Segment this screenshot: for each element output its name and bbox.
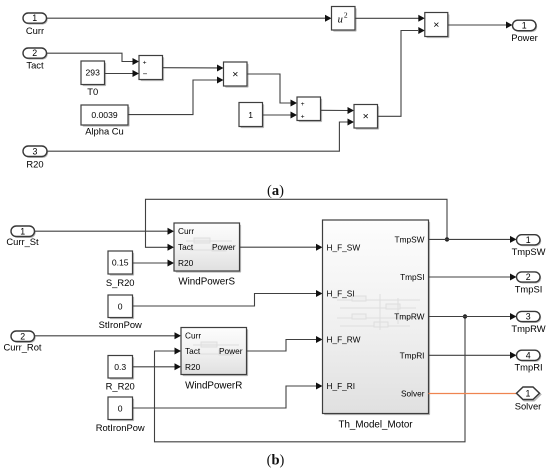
wire one to sum2 [263,112,298,119]
svg-text:(b): (b) [267,453,285,469]
svg-text:+: + [301,101,305,108]
inport 1 Curr_St [6,226,39,247]
constant T0 293 [81,61,106,97]
outport 3 TmpRW [511,311,545,333]
product block X3 [425,13,450,39]
wire TmpSW to outport [429,236,517,243]
wire WindPowerR Power to H_F_RW [247,336,323,351]
wire product2 to product3 [378,27,425,116]
wire Curr_St to WindPowerS Curr [35,228,175,235]
outport 4 TmpRI [514,350,542,372]
svg-text:Power: Power [219,346,243,356]
svg-text:TmpSW: TmpSW [512,246,546,257]
svg-text:Th_Model_Motor: Th_Model_Motor [338,420,413,431]
svg-text:4: 4 [526,350,531,360]
wire feedback TmpSW to WindPowerS Tact [146,199,450,251]
svg-text:u: u [338,14,343,25]
svg-text:StIronPow: StIronPow [99,319,142,330]
wire RotIronPow to H_F_RI [133,383,323,409]
svg-text:×: × [433,19,439,31]
sum block sum1 plus minus [139,56,164,82]
svg-text:(a): (a) [267,183,284,199]
wire u2 to product3 [355,15,425,22]
figure label (b) [267,453,285,469]
inport 1 Curr [23,13,48,36]
svg-text:H_F_SI: H_F_SI [327,289,355,299]
outport 1 TmpSW [512,235,546,257]
wire feedback TmpRW to WindPowerR Tact [155,314,468,442]
inport 2 Tact [23,48,48,71]
svg-text:TmpRW: TmpRW [394,312,424,322]
inport 3 R20 [23,146,48,170]
wire sum2 to product2 [321,107,355,114]
subsystem WindPowerS [174,223,241,288]
product block X2 [354,105,379,130]
svg-text:1: 1 [32,13,37,23]
svg-text:H_F_RI: H_F_RI [327,381,356,391]
wire TmpRW to outport [429,313,517,320]
wire product1 to sum2 [247,74,297,107]
svg-text:T0: T0 [87,86,98,97]
svg-text:3: 3 [526,312,531,322]
outport Solver state port [515,387,542,412]
svg-text:0.0039: 0.0039 [91,110,118,120]
wire WindPowerS Power to H_F_SW [240,244,323,251]
wire S_R20 to WindPowerS R20 [133,260,175,267]
svg-text:2: 2 [32,48,37,58]
subsystem Th_Model_Motor [323,220,431,431]
wire T0 to sum1 [105,70,140,77]
svg-text:Alpha Cu: Alpha Cu [85,125,124,136]
svg-text:Tact: Tact [185,346,201,356]
svg-text:Curr: Curr [178,226,194,236]
wire R20 to product2 [47,119,354,152]
svg-text:1: 1 [526,388,531,398]
svg-text:Tact: Tact [178,242,194,252]
constant S_R20 0.15 [106,251,135,288]
wire Curr to u^2 [47,15,332,22]
svg-text:+: + [143,59,147,66]
svg-text:TmpRI: TmpRI [400,350,425,360]
constant RotIronPow 0 [96,397,145,433]
svg-text:Solver: Solver [515,401,542,412]
svg-text:0.15: 0.15 [112,258,129,268]
outport 2 TmpSI [515,272,543,295]
svg-text:Tact: Tact [26,60,44,71]
svg-text:S_R20: S_R20 [106,277,135,288]
wire StIronPow to H_F_SI [133,290,323,306]
sum block sum2 plus plus [297,97,322,122]
subsystem WindPowerR [181,328,248,392]
svg-text:0: 0 [118,403,123,413]
svg-text:R20: R20 [26,159,43,170]
svg-text:+: + [301,113,305,120]
svg-text:Curr_Rot: Curr_Rot [3,341,41,352]
svg-text:×: × [363,111,369,123]
svg-text:H_F_SW: H_F_SW [327,242,361,252]
svg-text:−: − [143,70,148,79]
svg-text:Power: Power [511,32,538,43]
svg-text:2: 2 [526,272,531,282]
svg-text:TmpRW: TmpRW [511,323,545,334]
svg-text:RotIronPow: RotIronPow [96,422,145,433]
svg-text:H_F_RW: H_F_RW [327,335,361,345]
svg-text:2: 2 [344,11,348,20]
constant Alpha Cu 0.0039 [81,105,130,136]
svg-text:R20: R20 [178,258,194,268]
constant R_R20 0.3 [106,356,135,392]
wire TmpSI to outport [429,274,517,281]
svg-text:0.3: 0.3 [114,362,126,372]
constant StIronPow 0 [99,295,142,330]
inport 2 Curr_Rot [3,331,41,352]
wire R_R20 to WindPowerR R20 [133,363,182,370]
svg-text:1: 1 [248,110,253,120]
svg-text:R_R20: R_R20 [106,381,135,392]
math block u squared [332,7,357,32]
svg-text:2: 2 [20,331,25,341]
svg-text:TmpSI: TmpSI [515,283,543,294]
wire product3 to Power [448,22,513,29]
svg-text:Curr: Curr [185,331,201,341]
svg-text:Power: Power [212,242,236,252]
wire Curr_Rot to WindPowerR Curr [35,332,182,339]
svg-text:WindPowerR: WindPowerR [185,381,242,392]
svg-text:1: 1 [526,235,531,245]
svg-text:Solver: Solver [401,389,425,399]
wire TmpRI to outport [429,352,517,359]
wire sum1 to product1 [163,65,224,72]
figure label (a) [267,183,284,199]
constant one 1 [239,103,264,129]
svg-text:WindPowerS: WindPowerS [178,277,235,288]
svg-text:0: 0 [118,301,123,311]
svg-text:1: 1 [522,21,527,31]
svg-text:×: × [232,68,238,80]
svg-text:293: 293 [86,68,101,78]
product block X1 [224,62,249,88]
svg-text:Curr_St: Curr_St [6,236,39,247]
svg-text:Curr: Curr [26,25,44,36]
svg-text:TmpSW: TmpSW [395,235,425,245]
wire AlphaCu to product1 [128,77,224,115]
svg-text:TmpSI: TmpSI [400,272,424,282]
orange wire Solver to outport [429,393,517,395]
wire Tact to sum1 [47,53,140,65]
svg-text:3: 3 [33,146,38,156]
svg-text:R20: R20 [185,362,201,372]
outport 1 Power [511,20,538,43]
svg-text:1: 1 [20,226,25,236]
svg-text:TmpRI: TmpRI [514,362,542,373]
